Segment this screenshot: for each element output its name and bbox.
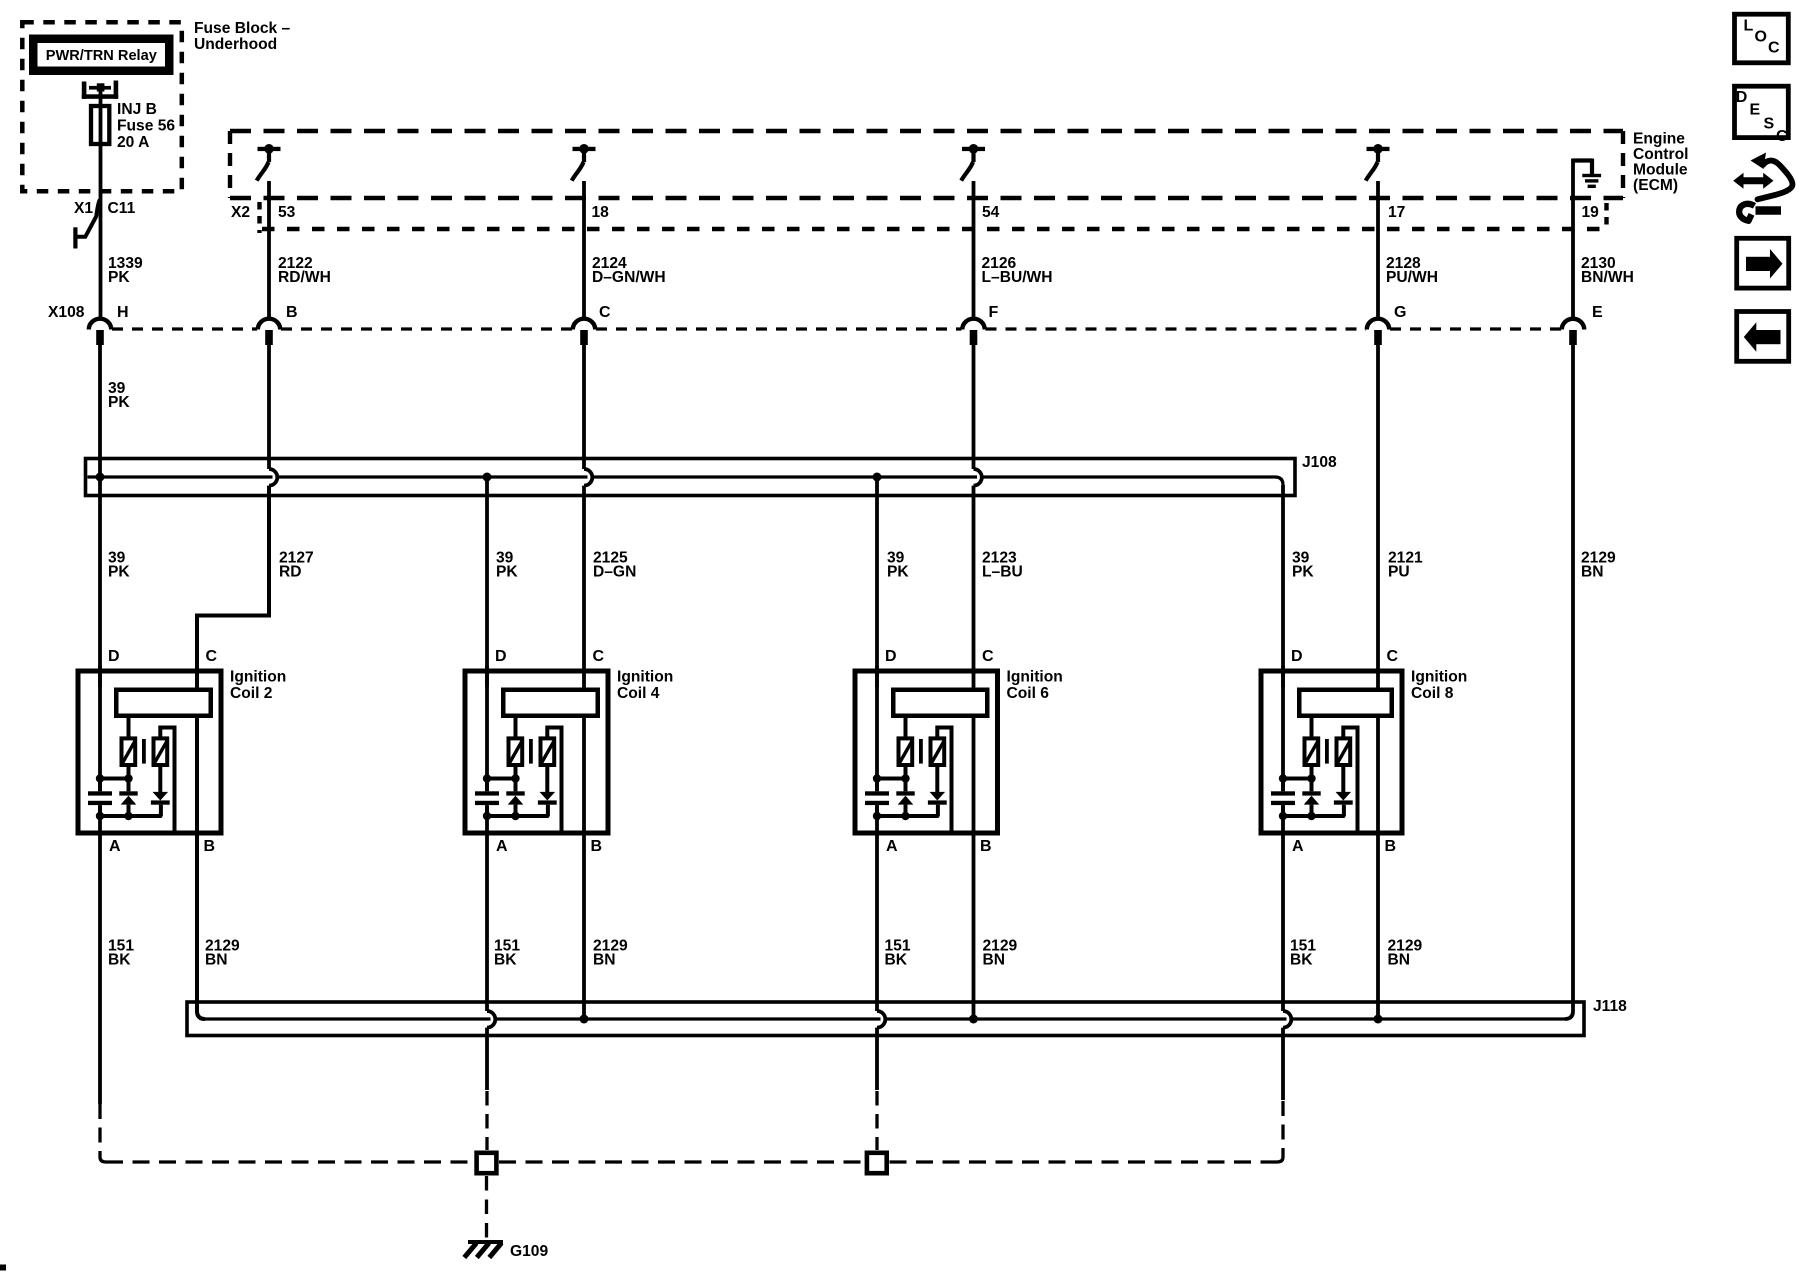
svg-text:Fuse 56: Fuse 56 xyxy=(117,118,175,135)
junction dot (coil 4 D) xyxy=(483,774,491,782)
svg-text:53: 53 xyxy=(278,204,296,221)
ECM driver switch (pin 18) xyxy=(572,144,596,181)
coil 4 capacitor xyxy=(475,780,499,816)
ignition coil 8 box xyxy=(1261,671,1402,833)
junction dot (coil 4 gnd a) xyxy=(483,812,491,820)
ECM driver switch (pin 53) xyxy=(257,144,281,181)
coil 2 junction link xyxy=(100,777,129,781)
svg-text:18: 18 xyxy=(592,204,610,221)
wire 151 BK coil 6 dashed xyxy=(875,1091,878,1150)
junction dot (coil 2 D) xyxy=(96,774,104,782)
svg-text:BN: BN xyxy=(593,952,616,969)
ECM internal ground (pin 19) xyxy=(1573,159,1601,189)
splice pack J118 xyxy=(187,1002,1584,1036)
junction dot (coil 8 gnd a) xyxy=(1279,812,1287,820)
svg-text:E: E xyxy=(1750,102,1761,119)
coil 6 D wire to junction xyxy=(875,666,879,780)
connector X108 pin C xyxy=(573,304,611,345)
svg-text:C: C xyxy=(982,648,994,665)
ECM driver switch (pin 54) xyxy=(961,144,985,181)
coil 8 D wire to junction xyxy=(1281,666,1285,780)
coil 6 primary feed wire xyxy=(904,718,908,739)
svg-text:BN: BN xyxy=(983,952,1006,969)
ignition coil 6 label xyxy=(1007,669,1063,703)
junction dot (coil 2 winding) xyxy=(124,774,132,782)
coil 2 connector block xyxy=(116,690,211,716)
junction dot (J118 coil 6 B) xyxy=(969,1015,978,1024)
coil 6 ground link xyxy=(877,814,939,818)
coil 8 secondary diode xyxy=(1334,767,1353,817)
svg-text:PK: PK xyxy=(496,564,518,581)
coil 6 junction link xyxy=(877,777,906,781)
coil 2 primary feed wire xyxy=(127,718,131,739)
svg-text:O: O xyxy=(1755,29,1767,46)
svg-text:B: B xyxy=(1385,838,1397,855)
svg-text:S: S xyxy=(1764,116,1775,133)
coil 8 primary diode xyxy=(1302,767,1320,816)
coil 8 junction link xyxy=(1283,777,1312,781)
svg-text:G109: G109 xyxy=(510,1243,548,1260)
coil 4 primary diode xyxy=(506,767,524,816)
connector row X108 (dashed line) xyxy=(112,327,1561,330)
wire from ECM pin 18 xyxy=(582,181,586,319)
svg-text:C: C xyxy=(1387,648,1399,665)
svg-text:BN: BN xyxy=(1388,952,1411,969)
ignition coil 4 label xyxy=(617,669,673,703)
svg-text:A: A xyxy=(109,838,121,855)
junction dot (coil 4 winding) xyxy=(511,774,519,782)
svg-text:B: B xyxy=(980,838,992,855)
wire label 1339 PK xyxy=(108,255,143,286)
svg-text:C: C xyxy=(593,648,605,665)
J108 bus line xyxy=(88,477,1284,485)
coil 2 D wire to junction xyxy=(98,666,102,780)
svg-text:B: B xyxy=(591,838,603,855)
connector X108 pin B xyxy=(258,304,298,345)
coil 6 primary diode xyxy=(896,767,914,816)
svg-text:PK: PK xyxy=(108,564,130,581)
dashed wire splice to G109 xyxy=(485,1176,488,1238)
junction dot (J118 coil 4 B) xyxy=(580,1015,589,1024)
icon forward arrow xyxy=(1737,238,1789,288)
coil 2 secondary winding xyxy=(154,738,168,765)
ignition coil 8 label xyxy=(1411,669,1467,703)
wire from ECM pin 17 xyxy=(1376,181,1380,319)
coil 6 capacitor xyxy=(865,780,889,816)
svg-text:20 A: 20 A xyxy=(117,134,149,151)
coil 8 secondary winding xyxy=(1337,738,1351,765)
svg-text:L: L xyxy=(1744,18,1754,35)
svg-text:Engine: Engine xyxy=(1633,131,1685,148)
coil 2 secondary diode xyxy=(151,767,170,817)
wire labels (coils to J118) xyxy=(108,938,1423,969)
coil 2 ground link xyxy=(100,814,162,818)
coil 6 secondary output wire xyxy=(937,728,951,834)
fuse block - underhood (dashed box) xyxy=(22,22,182,191)
wire 2127 RD (B column, hop over J108, jog to coil 2 pin C) xyxy=(197,345,277,688)
svg-text:PK: PK xyxy=(108,394,130,411)
fuse clip terminal xyxy=(82,81,118,99)
wire 1339 PK (fuse column) xyxy=(99,88,103,319)
svg-text:L–BU: L–BU xyxy=(982,564,1023,581)
svg-text:C11: C11 xyxy=(108,200,136,217)
wire 2129 BN (coil 8 pin B to J118) xyxy=(1376,718,1380,1019)
wire label 39 PK xyxy=(108,380,130,411)
connector X108 pin H xyxy=(89,304,129,345)
junction dot (coil 2 gnd b) xyxy=(124,812,132,820)
junction dot (J108 tap coil 6) xyxy=(873,473,882,482)
svg-text:D: D xyxy=(885,648,897,665)
svg-text:F: F xyxy=(989,304,999,321)
coil 8 primary winding xyxy=(1305,738,1319,765)
svg-text:D: D xyxy=(1291,648,1303,665)
connector X108 pin G xyxy=(1367,304,1407,345)
coil 8 connector block xyxy=(1299,690,1392,716)
svg-text:(ECM): (ECM) xyxy=(1633,177,1678,194)
splice (coil 6 ground) xyxy=(867,1153,887,1173)
svg-text:PU: PU xyxy=(1388,564,1410,581)
junction dot (J118 coil 8 B) xyxy=(1374,1015,1383,1024)
junction dot (J108 tap coil 4) xyxy=(483,473,492,482)
junction dot (coil 6 gnd b) xyxy=(901,812,909,820)
connector X108 pin F xyxy=(962,304,998,345)
svg-text:PK: PK xyxy=(1292,564,1314,581)
wire 2130 BN/WH from pin 19 xyxy=(1571,159,1575,319)
wire 151 BK (coil 6 pin A down, hop over J118) xyxy=(877,816,885,1090)
wire 151 BK (coil 8 pin A down, hop over J118) xyxy=(1283,816,1291,1100)
connector X108 pin E xyxy=(1562,304,1603,345)
svg-text:BK: BK xyxy=(1290,952,1313,969)
junction dot (coil 6 winding) xyxy=(901,774,909,782)
svg-text:D: D xyxy=(108,648,120,665)
ECM box (dashed) xyxy=(230,131,1623,198)
relay PWR/TRN xyxy=(29,35,174,76)
coil 2 primary diode xyxy=(119,767,137,816)
svg-text:BN/WH: BN/WH xyxy=(1581,269,1634,286)
svg-text:X2: X2 xyxy=(231,204,250,221)
wire 39 PK (J108 to coil 6 pin D) xyxy=(875,477,879,687)
svg-text:J118: J118 xyxy=(1593,998,1627,1015)
coil 2 secondary output wire xyxy=(160,728,174,834)
ignition coil 4 box xyxy=(465,671,608,833)
coil 4 core xyxy=(529,739,533,764)
icon LOC xyxy=(1735,14,1789,63)
coil 6 primary winding xyxy=(899,738,913,765)
ground G109 xyxy=(464,1240,548,1260)
svg-text:G: G xyxy=(1394,304,1406,321)
coil 2 primary winding xyxy=(122,738,136,765)
wire 39 PK (J108 right end to coil 8 pin D) xyxy=(1281,485,1285,687)
svg-text:RD/WH: RD/WH xyxy=(278,269,331,286)
svg-text:C: C xyxy=(599,304,611,321)
coil 4 secondary output wire xyxy=(547,728,561,834)
svg-text:54: 54 xyxy=(982,204,1000,221)
svg-text:19: 19 xyxy=(1582,204,1600,221)
wire labels (J108 to coils) xyxy=(108,550,1616,581)
svg-text:Coil 8: Coil 8 xyxy=(1411,685,1454,702)
svg-text:PK: PK xyxy=(108,269,130,286)
wire 151 BK coil 2 dashed to ground line xyxy=(100,1104,106,1162)
svg-text:Ignition: Ignition xyxy=(1007,669,1063,686)
wire 151 BK coil 4 dashed xyxy=(485,1091,488,1150)
coil 2 capacitor xyxy=(88,780,112,816)
junction dot (coil 6 gnd a) xyxy=(873,812,881,820)
wire 39 PK (J108 to coil 2 pin D) xyxy=(98,477,102,687)
coil 6 core xyxy=(919,739,923,764)
svg-text:Control: Control xyxy=(1633,146,1688,163)
wire 2129 BN (coil 4 pin B to J118) xyxy=(582,718,586,1019)
wire 2129 BN (coil 2 pin B to J118) xyxy=(197,718,205,1019)
coil 4 primary feed wire xyxy=(514,718,518,739)
J118 bus line xyxy=(205,1017,1565,1020)
svg-text:BK: BK xyxy=(108,952,131,969)
coil 4 ground link xyxy=(487,814,549,818)
ECM label xyxy=(1633,131,1688,195)
coil 6 secondary winding xyxy=(931,738,945,765)
coil 4 secondary winding xyxy=(541,738,555,765)
junction dot (J108 tap H/39PK) xyxy=(96,473,105,482)
coil 8 primary feed wire xyxy=(1310,718,1314,739)
svg-text:C: C xyxy=(206,648,218,665)
wire from ECM pin 54 xyxy=(972,181,976,319)
junction dot (coil 4 gnd b) xyxy=(511,812,519,820)
svg-text:PWR/TRN Relay: PWR/TRN Relay xyxy=(46,48,158,64)
svg-text:X1: X1 xyxy=(74,200,93,217)
wire 2129 BN trunk (E column down to J118) xyxy=(1565,345,1573,1019)
svg-text:H: H xyxy=(117,304,129,321)
svg-text:Ignition: Ignition xyxy=(617,669,673,686)
svg-text:17: 17 xyxy=(1388,204,1405,221)
svg-text:C: C xyxy=(1776,128,1788,145)
icon jump (squiggle arrows) xyxy=(1733,153,1792,221)
coil 8 capacitor xyxy=(1271,780,1295,816)
svg-text:PK: PK xyxy=(887,564,909,581)
coil 8 ground link xyxy=(1283,814,1345,818)
svg-text:PU/WH: PU/WH xyxy=(1386,269,1438,286)
coil 2 core xyxy=(142,739,146,764)
svg-text:A: A xyxy=(1292,838,1304,855)
icon DESC xyxy=(1735,86,1789,145)
svg-text:INJ B: INJ B xyxy=(117,101,157,118)
coil 4 primary winding xyxy=(509,738,523,765)
junction dot (coil 2 gnd a) xyxy=(96,812,104,820)
svg-text:RD: RD xyxy=(279,564,302,581)
page artifact mark xyxy=(0,1265,6,1271)
svg-text:D–GN/WH: D–GN/WH xyxy=(592,269,666,286)
X2 pin strip (dotted) xyxy=(260,202,1608,233)
svg-text:D: D xyxy=(1736,89,1748,106)
svg-text:Fuse Block –: Fuse Block – xyxy=(194,20,291,37)
svg-text:Coil 6: Coil 6 xyxy=(1007,685,1050,702)
svg-text:X108: X108 xyxy=(48,304,85,321)
svg-text:Coil 4: Coil 4 xyxy=(617,685,660,702)
coil 6 secondary diode xyxy=(928,767,947,817)
svg-text:L–BU/WH: L–BU/WH xyxy=(982,269,1053,286)
svg-text:A: A xyxy=(496,838,508,855)
splice pack J108 xyxy=(86,459,1296,496)
wire 39 PK (H to J108) xyxy=(98,345,102,477)
splice (coil 4 ground) xyxy=(477,1153,497,1173)
coil 4 junction link xyxy=(487,777,516,781)
svg-text:BK: BK xyxy=(885,952,908,969)
wire 151 BK (coil 4 pin A down, hop over J118) xyxy=(487,816,495,1090)
svg-text:D–GN: D–GN xyxy=(593,564,636,581)
coil 8 core xyxy=(1325,739,1329,764)
svg-text:B: B xyxy=(286,304,298,321)
junction dot (coil 8 winding) xyxy=(1307,774,1315,782)
svg-text:BN: BN xyxy=(1581,564,1604,581)
fuse 56 INJ B 20A xyxy=(91,101,175,151)
svg-text:A: A xyxy=(886,838,898,855)
connector X1 C11 xyxy=(74,200,136,249)
junction dot (coil 8 D) xyxy=(1279,774,1287,782)
wire labels (ECM to X108) xyxy=(278,255,1634,286)
svg-text:D: D xyxy=(495,648,507,665)
coil 4 D wire to junction xyxy=(485,666,489,780)
wire 39 PK (J108 to coil 4 pin D) xyxy=(485,477,489,687)
svg-text:B: B xyxy=(204,838,216,855)
wire 151 BK coil 8 dashed xyxy=(1277,1101,1283,1162)
svg-text:Underhood: Underhood xyxy=(194,36,277,53)
dashed ground line xyxy=(106,1160,1277,1163)
wire 151 BK (coil 2 pin A down) xyxy=(98,816,102,1104)
coil 8 secondary output wire xyxy=(1343,728,1357,834)
ignition coil 2 label xyxy=(230,669,286,703)
svg-text:Ignition: Ignition xyxy=(230,669,286,686)
fuse block label xyxy=(194,20,291,53)
svg-text:BK: BK xyxy=(494,952,517,969)
junction dot (coil 8 gnd b) xyxy=(1307,812,1315,820)
icon back arrow xyxy=(1737,312,1789,362)
wire 2125 D-GN (C column) xyxy=(584,345,592,688)
svg-text:Module: Module xyxy=(1633,162,1688,179)
wire 2123 L-BU (F column) xyxy=(974,345,982,688)
coil 4 secondary diode xyxy=(538,767,557,817)
svg-text:BN: BN xyxy=(205,952,228,969)
coil 6 connector block xyxy=(893,690,987,716)
ignition coil 2 box xyxy=(78,671,221,833)
wire from ECM pin 53 xyxy=(267,181,271,319)
svg-text:Coil 2: Coil 2 xyxy=(230,685,273,702)
svg-text:C: C xyxy=(1768,40,1780,57)
wire 2121 PU (G column) xyxy=(1376,345,1380,688)
ignition coil 6 box xyxy=(855,671,998,833)
svg-text:Ignition: Ignition xyxy=(1411,669,1467,686)
wire 2129 BN (coil 6 pin B to J118) xyxy=(972,718,976,1019)
junction dot (coil 6 D) xyxy=(873,774,881,782)
coil 4 connector block xyxy=(503,690,598,716)
svg-text:E: E xyxy=(1592,304,1603,321)
svg-text:J108: J108 xyxy=(1302,454,1337,471)
ECM driver switch (pin 17) xyxy=(1366,144,1390,181)
